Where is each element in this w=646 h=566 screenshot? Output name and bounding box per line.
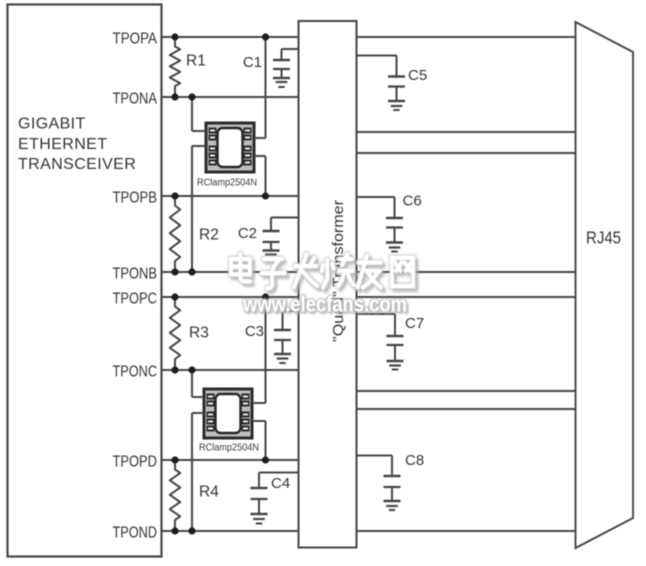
svg-text:TPOPB: TPOPB	[113, 190, 158, 207]
svg-text:R3: R3	[189, 325, 209, 342]
svg-text:R1: R1	[186, 53, 206, 70]
svg-text:TPONA: TPONA	[113, 91, 158, 108]
svg-text:C8: C8	[405, 452, 424, 469]
svg-text:C1: C1	[243, 54, 262, 71]
svg-text:TPOPA: TPOPA	[113, 31, 158, 48]
svg-text:RJ45: RJ45	[586, 228, 621, 248]
svg-text:C2: C2	[238, 225, 257, 242]
svg-text:RClamp2504N: RClamp2504N	[199, 442, 259, 454]
svg-text:ETHERNET: ETHERNET	[18, 136, 107, 153]
svg-text:TPOPC: TPOPC	[113, 291, 158, 308]
svg-text:R2: R2	[199, 227, 219, 244]
svg-text:C5: C5	[408, 67, 427, 84]
svg-text:C4: C4	[271, 475, 290, 492]
svg-text:TRANSCEIVER: TRANSCEIVER	[18, 156, 136, 173]
svg-text:RClamp2504N: RClamp2504N	[197, 177, 257, 189]
svg-text:TPOND: TPOND	[113, 525, 158, 542]
svg-text:TPONC: TPONC	[113, 364, 158, 381]
svg-text:TPOPD: TPOPD	[113, 454, 158, 471]
svg-text:TPONB: TPONB	[113, 266, 158, 283]
svg-text:GIGABIT: GIGABIT	[18, 116, 86, 133]
svg-text:R4: R4	[199, 484, 219, 501]
svg-text:C3: C3	[245, 323, 264, 340]
svg-text:C6: C6	[403, 193, 422, 210]
svg-text:www.elecfans.com: www.elecfans.com	[242, 292, 407, 317]
